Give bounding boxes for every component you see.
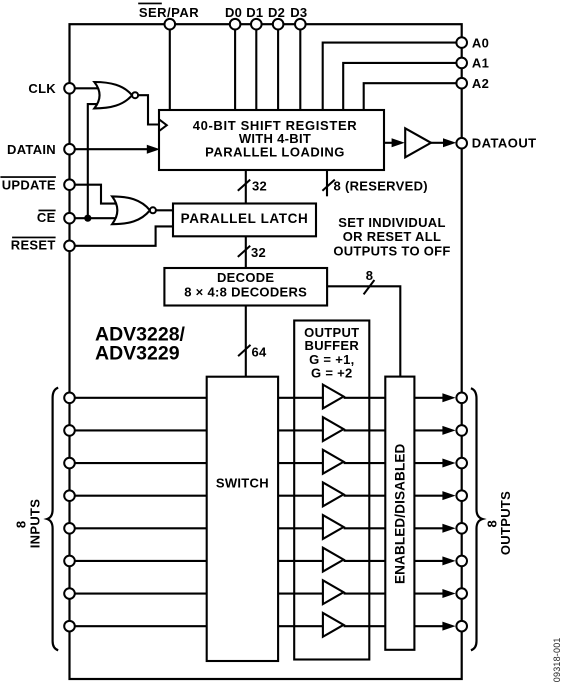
output buffer amp 2 (323, 417, 344, 441)
DATAOUT buffer amplifier (405, 128, 431, 157)
wire DATAOUT buffer to DATAOUT terminal with arrowhead (431, 138, 456, 147)
svg-text:UPDATE: UPDATE (2, 177, 56, 192)
terminal DATAIN (7, 142, 75, 157)
output terminal 5 (456, 523, 467, 534)
NOR gate U2 (UPDATE/CE gating) (112, 196, 156, 224)
terminal A0 (456, 35, 489, 50)
wire switch to buffer amp 1 (278, 397, 323, 399)
svg-text:A1: A1 (472, 56, 489, 71)
input terminal 3 (64, 458, 75, 469)
output buffer amp 3 (323, 450, 344, 474)
wire D0 to shift register (234, 24, 236, 110)
svg-text:09318-001: 09318-001 (552, 637, 561, 682)
svg-text:8 (RESERVED): 8 (RESERVED) (334, 178, 428, 193)
figure number 09318-001 (552, 637, 561, 682)
output buffer amp 4 (323, 482, 344, 506)
wire A2 to shift register (364, 83, 462, 110)
output terminal 8 (456, 621, 467, 632)
input terminal 6 (64, 556, 75, 567)
wire input 3 to switch (70, 462, 207, 464)
terminal DATAOUT (456, 136, 536, 151)
wire CE junction to NOR gate U1 (88, 104, 100, 218)
wire input 1 to switch (70, 397, 207, 399)
svg-text:D3: D3 (290, 5, 307, 20)
svg-text:ENABLED/DISABLED: ENABLED/DISABLED (392, 443, 407, 584)
output terminal 3 (456, 458, 467, 469)
svg-text:8: 8 (13, 521, 28, 529)
bus 64 decode to switch (238, 306, 267, 377)
wire D2 to shift register (277, 24, 279, 110)
output buffer amp 6 (323, 548, 344, 572)
wire enabled/disabled to output 7 with arrowhead (414, 589, 455, 598)
output terminal 6 (456, 556, 467, 567)
terminal UPDATE (0, 176, 74, 192)
wire buffer amp 6 to enabled/disabled box (344, 560, 386, 562)
svg-text:D0: D0 (225, 5, 242, 20)
svg-text:DATAOUT: DATAOUT (472, 136, 537, 151)
wire enabled/disabled to output 1 with arrowhead (414, 393, 455, 402)
svg-text:OUTPUTS: OUTPUTS (498, 491, 513, 555)
wire A0 to shift register (323, 43, 462, 110)
input terminal 7 (64, 588, 75, 599)
wire enabled/disabled to output 3 with arrowhead (414, 459, 455, 468)
output terminal 4 (456, 490, 467, 501)
wire enabled/disabled to output 6 with arrowhead (414, 556, 455, 565)
svg-text:G = +2: G = +2 (311, 366, 353, 381)
wire buffer amp 3 to enabled/disabled box (344, 462, 386, 464)
part number ADV3228/ADV3229 (95, 324, 186, 365)
wire switch to buffer amp 5 (278, 527, 323, 529)
wire A1 to shift register (343, 63, 462, 110)
svg-text:CLK: CLK (28, 81, 56, 96)
output buffer amp 5 (323, 515, 344, 539)
svg-text:8: 8 (366, 268, 374, 283)
wire input 4 to switch (70, 495, 207, 497)
terminal D0 (225, 5, 242, 30)
svg-text:32: 32 (252, 178, 267, 193)
output buffer amp 7 (323, 580, 344, 604)
terminal D3 (290, 5, 307, 30)
svg-text:OR RESET ALL: OR RESET ALL (343, 229, 441, 244)
terminal D2 (268, 5, 285, 30)
output terminal 2 (456, 425, 467, 436)
terminal SER/PAR (138, 3, 199, 30)
wire CE to NOR gate U2 (70, 217, 119, 219)
wire buffer amp 5 to enabled/disabled box (344, 527, 386, 529)
input terminal 8 (64, 621, 75, 632)
svg-text:A2: A2 (472, 76, 489, 91)
output buffer amp 1 (323, 385, 344, 409)
wire buffer amp 4 to enabled/disabled box (344, 495, 386, 497)
bus 8 decode to enabled/disabled box (327, 268, 400, 377)
input terminal 5 (64, 523, 75, 534)
junction on CE wire (84, 215, 91, 222)
wire enabled/disabled to output 4 with arrowhead (414, 491, 455, 500)
wire UPDATE to NOR gate U2 (70, 185, 117, 204)
bus 32 shift register to parallel latch (238, 170, 267, 204)
wire switch to buffer amp 7 (278, 592, 323, 594)
bus 8 reserved stub (322, 170, 427, 196)
right brace for 8 outputs (471, 388, 483, 650)
output terminal 1 (456, 393, 467, 404)
svg-text:INPUTS: INPUTS (27, 499, 42, 548)
output terminal 7 (456, 588, 467, 599)
wire switch to buffer amp 8 (278, 625, 323, 627)
wire enabled/disabled to output 8 with arrowhead (414, 622, 455, 631)
wire input 8 to switch (70, 625, 207, 627)
svg-text:ADV3229: ADV3229 (95, 343, 180, 365)
wire switch to buffer amp 6 (278, 560, 323, 562)
wire buffer amp 1 to enabled/disabled box (344, 397, 386, 399)
svg-text:A0: A0 (472, 35, 489, 50)
input terminal 2 (64, 425, 75, 436)
svg-text:SET INDIVIDUAL: SET INDIVIDUAL (338, 215, 445, 230)
wire D3 to shift register (299, 24, 301, 110)
parallel latch box (173, 204, 316, 237)
wire input 7 to switch (70, 592, 207, 594)
wire switch to buffer amp 4 (278, 495, 323, 497)
svg-text:D1: D1 (246, 5, 263, 20)
bus 32 parallel latch to decode (238, 236, 266, 268)
wire enabled/disabled to output 5 with arrowhead (414, 524, 455, 533)
svg-text:SWITCH: SWITCH (216, 476, 269, 491)
wire switch to buffer amp 3 (278, 462, 323, 464)
svg-text:D2: D2 (268, 5, 285, 20)
terminal CE (37, 210, 75, 226)
switch box (207, 377, 278, 661)
wire buffer amp 2 to enabled/disabled box (344, 429, 386, 431)
wire D1 to shift register (255, 24, 257, 110)
wire CLK to NOR gate U1 (70, 87, 101, 89)
40-bit shift register box (159, 110, 384, 170)
wire NOR U1 output to shift register clock input (139, 95, 160, 124)
svg-text:DECODE: DECODE (217, 270, 274, 285)
terminal D1 (246, 5, 263, 30)
output buffer amp 8 (323, 613, 344, 637)
wire switch to buffer amp 2 (278, 429, 323, 431)
terminal A2 (456, 76, 489, 91)
input terminal 1 (64, 393, 75, 404)
decode box (164, 268, 327, 306)
outer boundary of device (70, 24, 462, 679)
terminal RESET (11, 237, 75, 253)
svg-text:CE: CE (37, 210, 56, 225)
enabled/disabled box (385, 377, 414, 650)
wire buffer amp 8 to enabled/disabled box (344, 625, 386, 627)
wire SER/PAR to shift register (169, 24, 171, 110)
label 8 OUTPUTS (484, 491, 513, 555)
left brace for 8 inputs (47, 388, 58, 651)
svg-text:64: 64 (252, 345, 268, 360)
wire enabled/disabled to output 2 with arrowhead (414, 426, 455, 435)
wire RESET to parallel latch (70, 226, 174, 245)
svg-text:DATAIN: DATAIN (7, 142, 56, 157)
NOR gate U1 (CLK gating) (94, 82, 138, 108)
wire input 5 to switch (70, 527, 207, 529)
output buffer box (294, 321, 369, 660)
wire DATAIN to shift register with arrowhead (70, 145, 161, 154)
svg-text:32: 32 (251, 245, 266, 260)
annotation SET INDIVIDUAL OR RESET ALL OUTPUTS TO OFF (333, 215, 450, 259)
wire input 2 to switch (70, 429, 207, 431)
wire shift register to DATAOUT buffer with arrowhead (384, 138, 405, 147)
wire NOR U2 output to parallel latch (155, 209, 173, 211)
svg-text:OUTPUTS TO OFF: OUTPUTS TO OFF (333, 244, 450, 259)
label 8 INPUTS (13, 499, 42, 548)
svg-text:PARALLEL LATCH: PARALLEL LATCH (181, 211, 309, 226)
input terminal 4 (64, 490, 75, 501)
svg-text:RESET: RESET (11, 237, 56, 252)
svg-text:SER/PAR: SER/PAR (139, 5, 199, 20)
svg-text:8 × 4:8 DECODERS: 8 × 4:8 DECODERS (184, 285, 307, 300)
terminal CLK (28, 81, 74, 96)
svg-text:PARALLEL LOADING: PARALLEL LOADING (205, 145, 345, 160)
terminal A1 (456, 56, 489, 71)
wire input 6 to switch (70, 560, 207, 562)
wire buffer amp 7 to enabled/disabled box (344, 592, 386, 594)
